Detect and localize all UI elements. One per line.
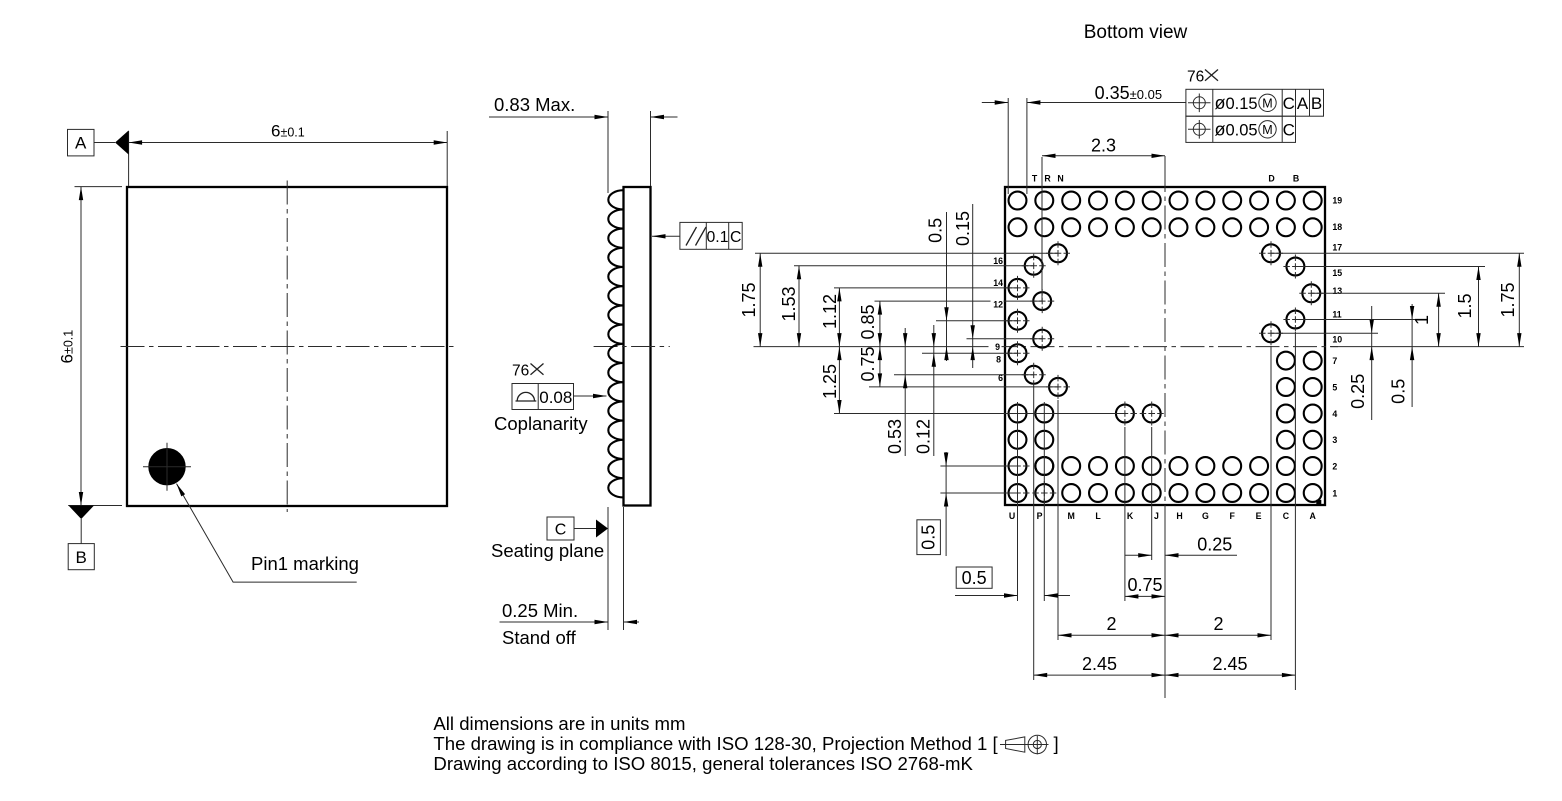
side view: 16 solder bumps (half ellipses) bbox=[608, 190, 623, 497]
vertical dim 1.53 left bbox=[798, 266, 800, 347]
svg-text:13: 13 bbox=[1332, 286, 1342, 296]
left horizontal extension line center bbox=[754, 346, 995, 348]
position symbol row1 bbox=[1188, 94, 1211, 113]
svg-text:0.25: 0.25 bbox=[1348, 374, 1368, 409]
right horizontal extension line row 11 / dim 0.5 bbox=[1295, 319, 1419, 321]
svg-text:8: 8 bbox=[996, 355, 1001, 365]
svg-text:P: P bbox=[1037, 511, 1043, 521]
dimension 2 bottom left (N to center) bbox=[1058, 634, 1165, 636]
datum B: feature triangle bbox=[69, 506, 95, 520]
bottom view: vertical center line bbox=[1164, 168, 1166, 512]
svg-text:1.25: 1.25 bbox=[820, 364, 840, 399]
crosshair ball U8 bbox=[1006, 341, 1030, 365]
svg-text:Coplanarity: Coplanarity bbox=[494, 413, 588, 434]
svg-text:1.75: 1.75 bbox=[1498, 282, 1518, 317]
svg-text:6: 6 bbox=[998, 373, 1003, 383]
svg-text:2.45: 2.45 bbox=[1212, 654, 1247, 674]
svg-text:ø0.15: ø0.15 bbox=[1215, 93, 1258, 113]
seating plane datum C box bbox=[547, 517, 574, 540]
side view: horizontal center line bbox=[594, 346, 670, 348]
crosshair ball K4 bbox=[1113, 402, 1137, 426]
svg-text:17: 17 bbox=[1332, 243, 1342, 253]
crosshair ball U14 bbox=[1006, 276, 1030, 300]
svg-text:L: L bbox=[1095, 511, 1101, 521]
svg-text:The drawing is in compliance w: The drawing is in compliance with ISO 12… bbox=[433, 733, 998, 754]
svg-text:1.12: 1.12 bbox=[820, 294, 840, 329]
vertical extension lines below package bbox=[1017, 402, 1019, 601]
svg-text:16: 16 bbox=[993, 256, 1003, 266]
svg-text:0.5: 0.5 bbox=[926, 218, 946, 243]
boxed dimension 0.5 bottom (U to P, outside arrows) bbox=[955, 595, 1018, 597]
bottom view: package outline bbox=[1005, 187, 1325, 505]
bottom view: A1 corner mark bbox=[1316, 500, 1321, 505]
left horizontal extension line row 17 bbox=[755, 252, 1058, 254]
crosshair ball T16 bbox=[1022, 254, 1046, 278]
dimension 6+-0.1 horizontal: extension lines bbox=[128, 131, 130, 186]
svg-text:2.45: 2.45 bbox=[1082, 654, 1117, 674]
svg-text:76: 76 bbox=[512, 363, 529, 380]
crosshair ball B15 bbox=[1283, 255, 1307, 279]
left horizontal extension line row 6 bbox=[894, 374, 1034, 376]
crosshair ball T6 bbox=[1022, 363, 1046, 387]
svg-text:ø0.05: ø0.05 bbox=[1215, 119, 1258, 139]
svg-text:1: 1 bbox=[1332, 488, 1337, 498]
vertical dim 0.5 right (outside arrows) bbox=[1411, 304, 1413, 407]
svg-text:0.85: 0.85 bbox=[858, 304, 878, 339]
svg-text:C: C bbox=[1283, 121, 1295, 140]
vertical dim 1.25 left bbox=[838, 347, 840, 414]
svg-text:Stand off: Stand off bbox=[502, 627, 577, 648]
top view: horizontal center line bbox=[121, 346, 454, 348]
svg-text:K: K bbox=[1127, 511, 1134, 521]
svg-text:Seating plane: Seating plane bbox=[491, 540, 604, 561]
bottom view: horizontal center line bbox=[993, 346, 1338, 348]
dimension 0.83 Max: extension lines bbox=[607, 111, 609, 193]
vertical dim 0.25 right (outside arrows) bbox=[1371, 306, 1373, 420]
dimension 0.35+-0.05 (ball diameter) bbox=[982, 102, 1008, 104]
svg-text:C: C bbox=[555, 521, 567, 538]
svg-text:B: B bbox=[76, 548, 87, 567]
svg-text:A: A bbox=[1310, 511, 1317, 521]
svg-text:2.3: 2.3 bbox=[1091, 136, 1116, 156]
right horizontal extension line row 10 / dim 0.25 bbox=[1271, 332, 1378, 334]
vertical dim 1.5 right bbox=[1478, 267, 1480, 347]
vertical extension line column R (dim 2.3) bbox=[1041, 157, 1043, 301]
vertical dim 0.12 left (outside arrows) bbox=[933, 325, 935, 456]
svg-text:J: J bbox=[1154, 511, 1159, 521]
vertical dim 1 right bbox=[1438, 293, 1440, 346]
crosshair ball U1 bbox=[1006, 481, 1030, 505]
crosshair ball D17 bbox=[1259, 241, 1283, 265]
svg-text:3: 3 bbox=[1332, 435, 1337, 445]
svg-text:N: N bbox=[1057, 174, 1063, 184]
svg-text:E: E bbox=[1256, 511, 1262, 521]
svg-text:R: R bbox=[1044, 174, 1051, 184]
left horizontal extension line row 4 bbox=[834, 413, 1125, 415]
right horizontal extension line row 17 / dim 1.75 bbox=[1271, 252, 1524, 254]
svg-text:12: 12 bbox=[993, 300, 1003, 310]
right horizontal extension line center bbox=[1330, 346, 1524, 348]
seating plane extension line bbox=[607, 507, 609, 630]
dimension 0.75 bottom (K to center) bbox=[1125, 595, 1165, 597]
svg-text:D: D bbox=[1268, 174, 1274, 184]
svg-text:F: F bbox=[1230, 511, 1236, 521]
crosshair ball A13 bbox=[1299, 281, 1323, 305]
side view: package body rectangle bbox=[624, 187, 651, 506]
parallelism tolerance frame // 0.1 C bbox=[680, 222, 742, 249]
svg-text:0.5: 0.5 bbox=[962, 568, 987, 588]
crosshair ball N5 bbox=[1046, 375, 1070, 399]
vertical dim 0.85 left bbox=[879, 301, 881, 347]
left horizontal extension line row 1 bbox=[940, 492, 1017, 494]
svg-text:0.5: 0.5 bbox=[1389, 379, 1409, 404]
crosshair ball N17 bbox=[1046, 241, 1070, 265]
svg-text:14: 14 bbox=[993, 278, 1003, 288]
svg-text:0.75: 0.75 bbox=[1127, 575, 1162, 595]
svg-text:10: 10 bbox=[1332, 335, 1342, 345]
svg-text:2: 2 bbox=[1213, 614, 1223, 634]
ball row 18 (12 balls) bbox=[1009, 218, 1322, 236]
svg-text:1.75: 1.75 bbox=[739, 282, 759, 317]
right horizontal extension line row 15 / dim 1.5 bbox=[1295, 266, 1485, 268]
svg-text:0.25: 0.25 bbox=[1197, 534, 1232, 554]
datum A: feature triangle bbox=[115, 130, 129, 154]
svg-text:19: 19 bbox=[1332, 195, 1342, 205]
ball row 2 (balls M2..A2 plain) bbox=[1035, 457, 1321, 475]
dimension 2 bottom right (center to D) bbox=[1165, 634, 1271, 636]
dimension 0.25 bottom (J to center, outside arrows) bbox=[1125, 554, 1152, 556]
svg-text:C: C bbox=[1283, 511, 1290, 521]
left horizontal extension line row 9 bbox=[967, 338, 1043, 340]
left horizontal extension line row 14 bbox=[834, 287, 1018, 289]
dimension 2.45 bottom left (T to center) bbox=[1034, 674, 1165, 676]
coplanarity tolerance frame (profile of surface 0.08) bbox=[512, 384, 574, 410]
left horizontal extension line row 5 bbox=[869, 386, 1058, 388]
svg-text:5: 5 bbox=[1332, 383, 1337, 393]
svg-text:C: C bbox=[730, 229, 741, 246]
svg-text:15: 15 bbox=[1332, 268, 1342, 278]
top view: pin1 marking dot bbox=[148, 448, 185, 485]
position symbol row2 bbox=[1188, 120, 1211, 139]
pin1 leader line bbox=[177, 484, 357, 582]
vertical dim 1.12 left bbox=[838, 288, 840, 347]
ball row 19 (12 balls) bbox=[1009, 192, 1322, 210]
svg-text:76: 76 bbox=[1187, 69, 1204, 86]
svg-text:0.75: 0.75 bbox=[858, 346, 878, 381]
svg-text:0.1: 0.1 bbox=[707, 229, 729, 246]
svg-text:0.15: 0.15 bbox=[953, 211, 973, 246]
left horizontal extension line row 16 bbox=[794, 265, 1034, 267]
svg-text:M: M bbox=[1262, 123, 1272, 137]
crosshair ball U2 bbox=[1006, 454, 1030, 478]
dimension 2.45 bottom right (center to B) bbox=[1165, 674, 1295, 676]
vertical dim 0.15 upper left (outside arrows) bbox=[972, 204, 974, 368]
svg-text:]: ] bbox=[1054, 733, 1059, 754]
crosshair ball B11 bbox=[1283, 308, 1307, 332]
crosshair ball P1 bbox=[1032, 481, 1056, 505]
svg-text:A: A bbox=[1297, 94, 1309, 113]
crosshair ball R9 bbox=[1030, 327, 1054, 351]
vertical dim 0.5 upper left (outside arrows) bbox=[946, 212, 948, 361]
datum B: leader and box bbox=[80, 519, 82, 544]
svg-text:A: A bbox=[75, 134, 87, 153]
svg-text:11: 11 bbox=[1332, 310, 1341, 320]
svg-text:4: 4 bbox=[1332, 409, 1337, 419]
vertical dim 0.75 left bbox=[879, 347, 881, 387]
svg-text:0.5: 0.5 bbox=[919, 525, 939, 550]
dimension 6+-0.1 vertical: dimension line with arrows bbox=[80, 187, 82, 506]
svg-text:1.53: 1.53 bbox=[779, 286, 799, 321]
svg-text:0.83 Max.: 0.83 Max. bbox=[494, 94, 575, 115]
svg-text:0.25 Min.: 0.25 Min. bbox=[502, 600, 578, 621]
dimension 6+-0.1 horizontal: dimension line with arrows bbox=[129, 142, 448, 144]
right columns C,A rows 7,5,4,3 plain balls bbox=[1277, 352, 1322, 449]
svg-text:1: 1 bbox=[1412, 315, 1432, 325]
coplanarity frame leader arrow to bump tips bbox=[574, 395, 607, 397]
stand off extension line bbox=[623, 507, 625, 630]
crosshair ball U11 bbox=[1006, 309, 1030, 333]
svg-text:G: G bbox=[1202, 511, 1209, 521]
left horizontal extension line row 11 bbox=[936, 320, 1018, 322]
svg-text:1.5: 1.5 bbox=[1455, 293, 1475, 318]
svg-text:All dimensions are in units mm: All dimensions are in units mm bbox=[433, 713, 685, 734]
vertical dim 0.53 left (outside arrows) bbox=[904, 328, 906, 456]
right horizontal extension line row 13 / dim 1 bbox=[1311, 292, 1445, 294]
feature control frame row 1: position dia0.15 M C A B bbox=[1186, 89, 1324, 116]
svg-text:9: 9 bbox=[995, 342, 1000, 352]
crosshair ball J4 bbox=[1140, 402, 1164, 426]
vertical dim 1.75 right bbox=[1518, 253, 1520, 346]
svg-text:T: T bbox=[1032, 174, 1038, 184]
top view: package body outline 6x6 bbox=[127, 187, 447, 506]
parallelism frame leader arrow to body right edge bbox=[652, 235, 680, 237]
svg-text:C: C bbox=[1283, 94, 1295, 113]
dimension 6+-0.1 vertical: extension lines bbox=[75, 186, 123, 188]
vertical extension line center above package bbox=[1164, 156, 1166, 190]
svg-text:Bottom view: Bottom view bbox=[1084, 22, 1188, 43]
left horizontal extension line row 2 bbox=[940, 465, 1017, 467]
svg-text:B: B bbox=[1311, 94, 1322, 113]
dimension 2.3 bbox=[1042, 155, 1165, 157]
svg-text:B: B bbox=[1293, 174, 1299, 184]
svg-text:0.12: 0.12 bbox=[914, 419, 934, 454]
svg-text:7: 7 bbox=[1332, 356, 1337, 366]
svg-text:0.53: 0.53 bbox=[885, 419, 905, 454]
svg-text:2: 2 bbox=[1332, 461, 1337, 471]
svg-text:Pin1 marking: Pin1 marking bbox=[251, 553, 359, 574]
svg-text:18: 18 bbox=[1332, 222, 1342, 232]
svg-text:2: 2 bbox=[1106, 614, 1116, 634]
svg-text:0.08: 0.08 bbox=[539, 388, 572, 407]
top view: vertical center line bbox=[286, 181, 288, 513]
svg-text:M: M bbox=[1262, 97, 1272, 111]
vertical extension lines above package: ball tangents for dia 0.35 bbox=[1007, 98, 1009, 194]
svg-text:M: M bbox=[1068, 511, 1075, 521]
crosshair ball D10 bbox=[1259, 321, 1283, 345]
vertical dim 1.75 left bbox=[759, 253, 761, 346]
pin1 dot cross lines bbox=[143, 466, 191, 468]
datum A: leader and box bbox=[94, 142, 115, 144]
feature control frame row 2: position dia0.05 M C bbox=[1186, 116, 1296, 142]
dimension 0.83 Max: dimension line with outside arrows bbox=[489, 116, 608, 118]
dimension 0.25 Min stand off bbox=[500, 621, 609, 623]
boxed vertical dim 0.5 lower left (outside arrows) bbox=[945, 452, 947, 556]
left horizontal extension line row 8 bbox=[922, 352, 1018, 354]
left columns U,P rows 4,3 plain balls bbox=[1009, 405, 1054, 475]
svg-text:U: U bbox=[1009, 511, 1015, 521]
svg-text:H: H bbox=[1176, 511, 1182, 521]
ball row 1 (balls M1..A1 plain) bbox=[1062, 484, 1321, 502]
svg-text:Drawing according to ISO 8015,: Drawing according to ISO 8015, general t… bbox=[433, 753, 973, 774]
seating plane leader and filled triangle bbox=[574, 528, 597, 530]
crosshair ball R12 bbox=[1030, 289, 1054, 313]
projection method symbol (frustum and circles) bbox=[1006, 737, 1025, 752]
left horizontal extension line row 12 bbox=[875, 300, 1043, 302]
